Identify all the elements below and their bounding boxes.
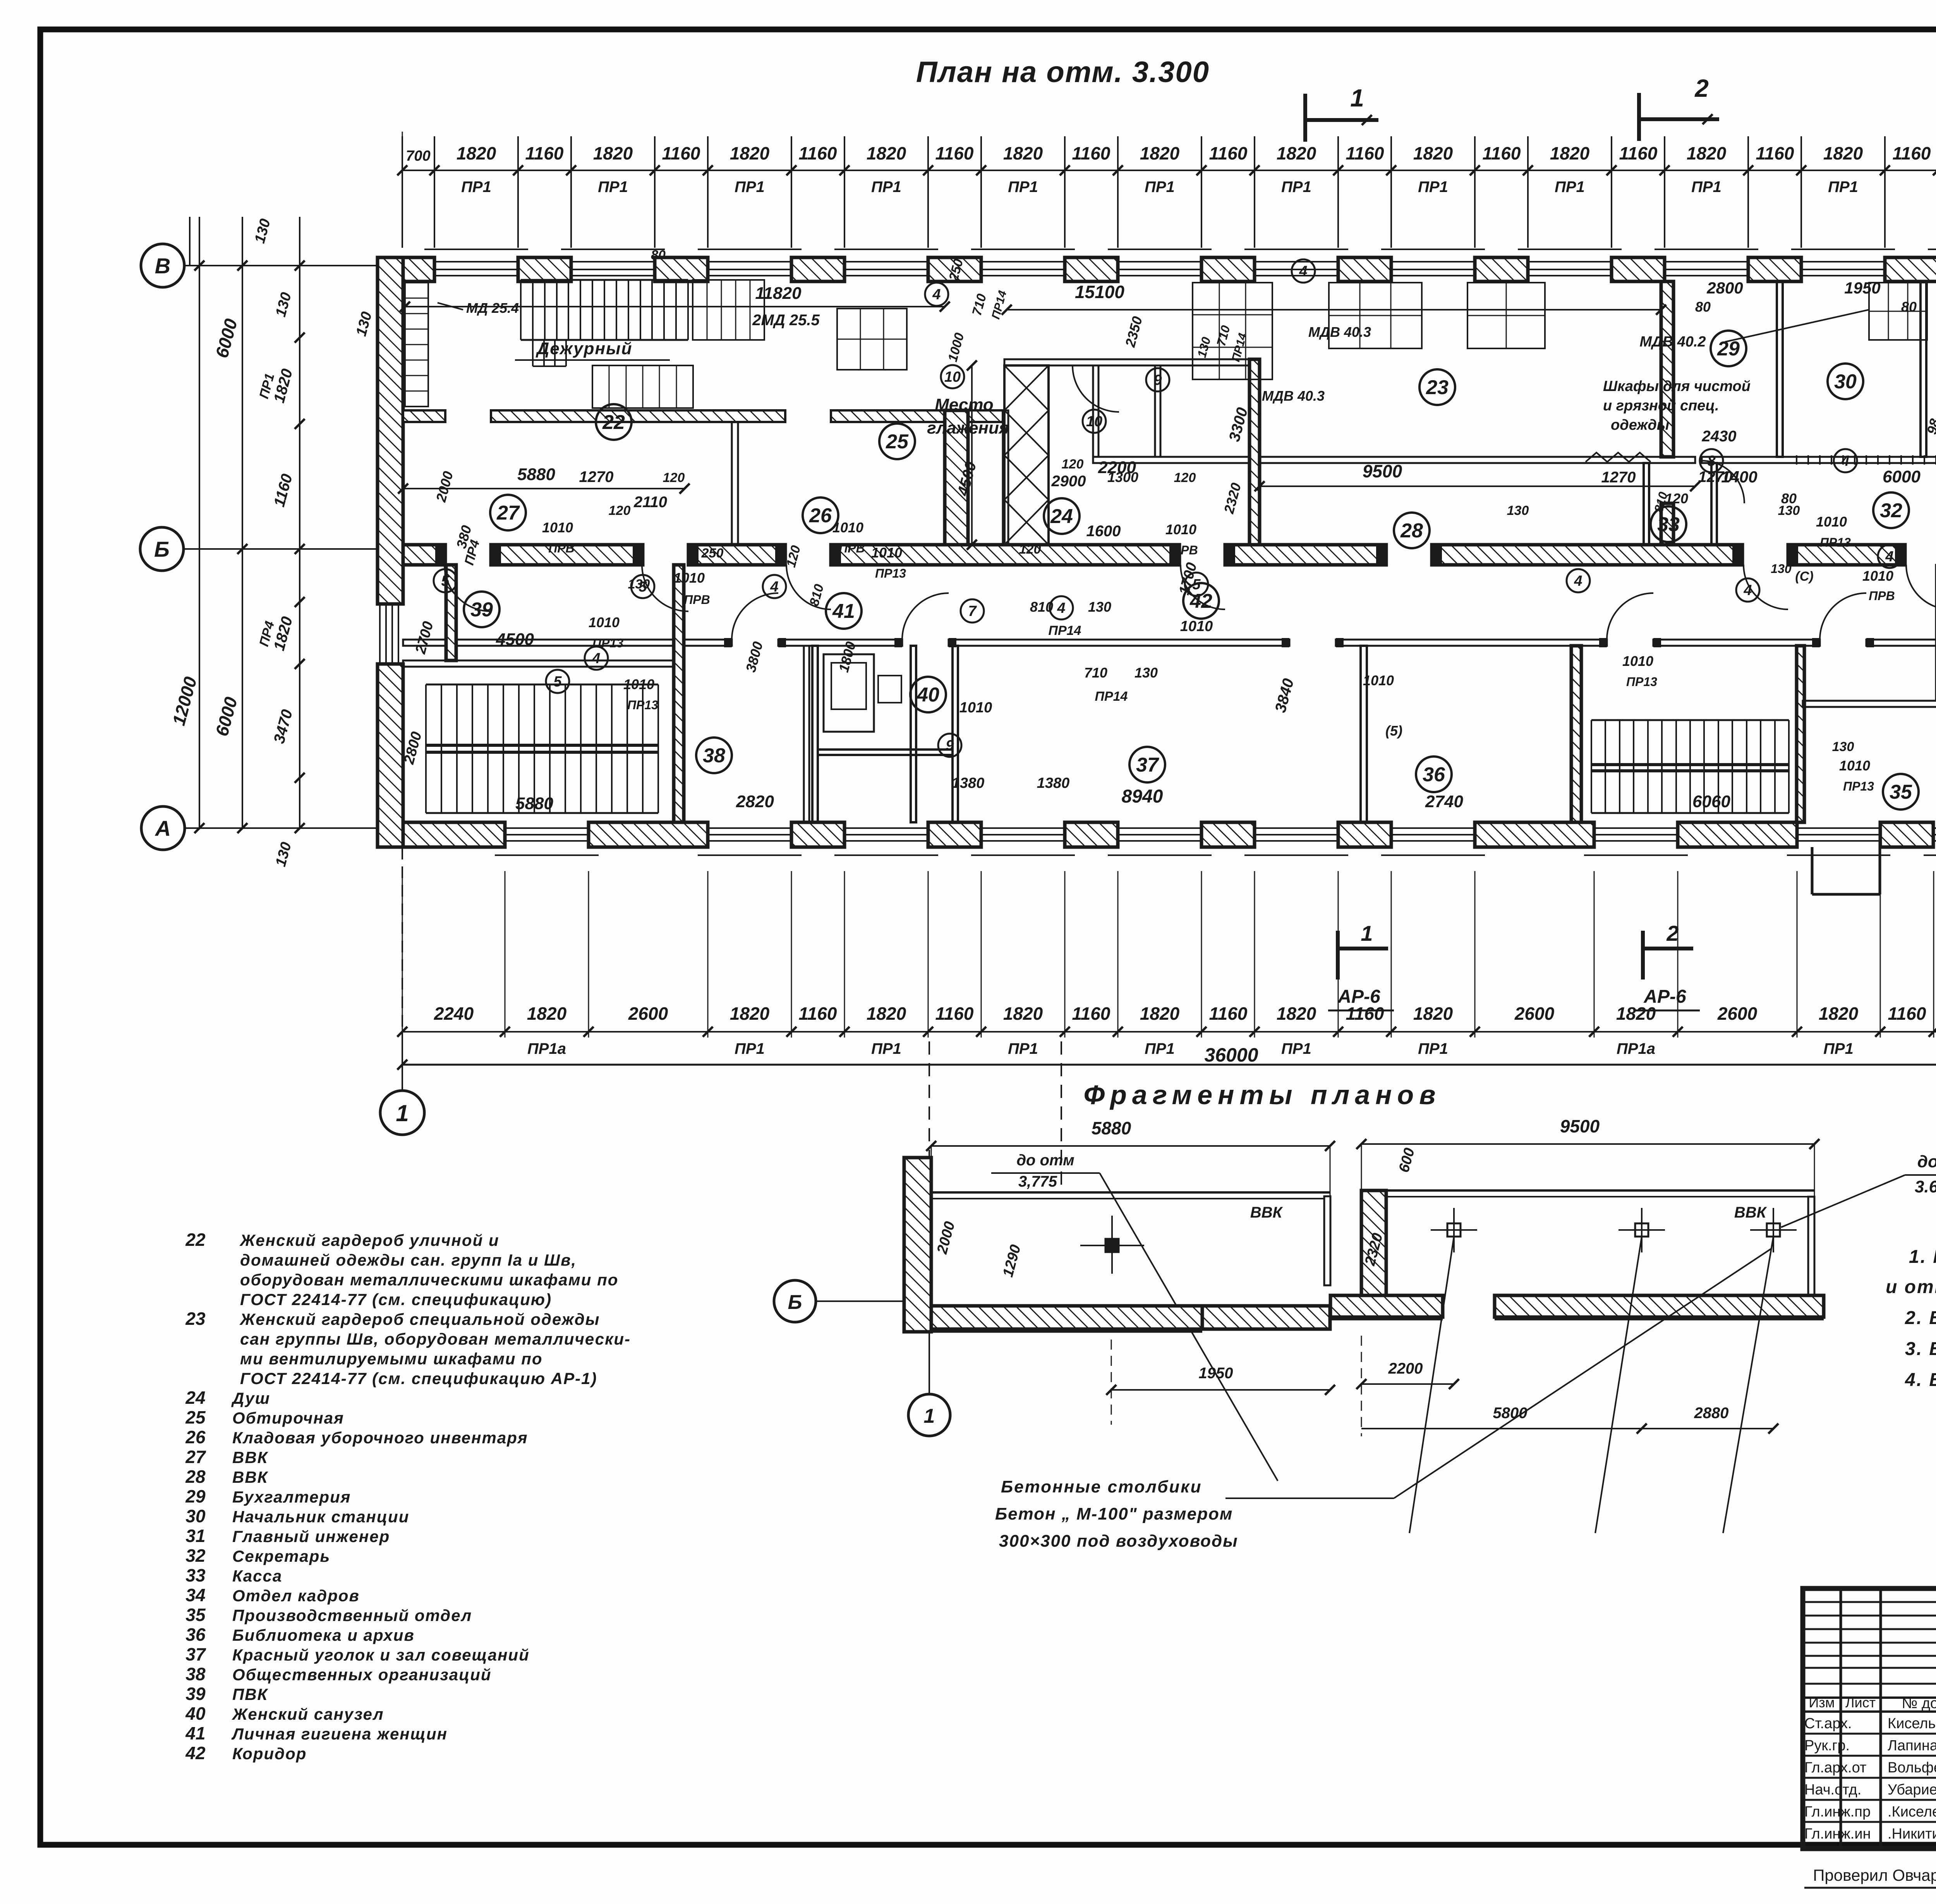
svg-text:1160: 1160 bbox=[662, 143, 700, 163]
svg-text:2800: 2800 bbox=[1706, 279, 1743, 297]
svg-text:4: 4 bbox=[1743, 582, 1752, 599]
room 39 lower wall bbox=[403, 660, 674, 667]
svg-text:Б: Б bbox=[154, 537, 170, 561]
svg-text:ВВК: ВВК bbox=[1250, 1204, 1283, 1221]
left upper room walls (22 area) bbox=[1003, 410, 1008, 545]
svg-text:ПР1: ПР1 bbox=[1281, 1040, 1311, 1057]
svg-text:1160: 1160 bbox=[935, 143, 974, 163]
svg-text:5: 5 bbox=[553, 674, 562, 690]
svg-text:28: 28 bbox=[185, 1467, 206, 1487]
svg-text:Общественных организаций: Общественных организаций bbox=[232, 1666, 492, 1684]
svg-text:1010: 1010 bbox=[1165, 521, 1196, 537]
room 29 bbox=[1711, 331, 1746, 366]
svg-text:1010: 1010 bbox=[1622, 653, 1653, 669]
axis А circle bbox=[141, 806, 185, 850]
svg-text:2. Ведомость перемычек на: 2. Ведомость перемычек на листе АР-2. bbox=[1905, 1308, 1936, 1328]
bottom windows bbox=[505, 827, 589, 829]
svg-text:1: 1 bbox=[1350, 84, 1364, 112]
grid blocks room 22 bbox=[693, 280, 764, 340]
wall 36 right bbox=[1571, 646, 1581, 822]
svg-text:9: 9 bbox=[1153, 372, 1162, 388]
svg-text:ПР1: ПР1 bbox=[1828, 178, 1858, 196]
svg-text:23: 23 bbox=[185, 1309, 206, 1329]
svg-text:ПРВ: ПРВ bbox=[548, 541, 574, 555]
svg-text:Фрагменты планов: Фрагменты планов bbox=[1084, 1080, 1441, 1110]
svg-text:9500: 9500 bbox=[1363, 461, 1402, 481]
svg-text:15100: 15100 bbox=[1075, 282, 1124, 302]
svg-text:130: 130 bbox=[1778, 503, 1800, 518]
svg-text:Женский гардероб специальной о: Женский гардероб специальной одежды bbox=[239, 1310, 600, 1328]
svg-text:4: 4 bbox=[932, 286, 941, 303]
wardrobe grid room 22 bbox=[592, 365, 693, 408]
svg-text:5880: 5880 bbox=[517, 465, 555, 484]
svg-text:Отдел кадров: Отдел кадров bbox=[232, 1587, 360, 1605]
wall 37 right / 36 left bbox=[1361, 646, 1367, 822]
left extension lines bbox=[189, 217, 191, 266]
svg-text:1950: 1950 bbox=[1199, 1365, 1233, 1382]
svg-text:36: 36 bbox=[1423, 763, 1445, 786]
room 27 bbox=[490, 495, 526, 530]
svg-text:ПР13: ПР13 bbox=[1843, 779, 1874, 793]
svg-text:8940: 8940 bbox=[1122, 786, 1163, 807]
svg-text:3,775: 3,775 bbox=[1018, 1173, 1057, 1190]
svg-text:1300: 1300 bbox=[1107, 469, 1138, 485]
svg-text:4: 4 bbox=[592, 650, 600, 667]
top dimension chain bbox=[402, 170, 1936, 171]
svg-text:35: 35 bbox=[185, 1605, 206, 1625]
svg-text:1010: 1010 bbox=[832, 520, 863, 535]
svg-text:Производственный отдел: Производственный отдел bbox=[232, 1606, 472, 1624]
svg-text:22: 22 bbox=[602, 411, 625, 434]
svg-text:27: 27 bbox=[496, 502, 520, 524]
partition in room 39 bbox=[446, 565, 456, 660]
svg-text:4: 4 bbox=[770, 579, 778, 595]
room 24 bbox=[1044, 498, 1080, 534]
svg-text:1160: 1160 bbox=[1346, 143, 1384, 163]
svg-text:38: 38 bbox=[703, 744, 725, 767]
partition above room 24 block bbox=[1004, 359, 1260, 365]
svg-text:1380: 1380 bbox=[1037, 775, 1070, 791]
svg-text:ПР1а: ПР1а bbox=[527, 1040, 566, 1057]
svg-text:1160: 1160 bbox=[799, 143, 837, 163]
svg-text:Гл.инж.пр: Гл.инж.пр bbox=[1804, 1804, 1871, 1820]
svg-text:ПР13: ПР13 bbox=[592, 636, 623, 650]
svg-text:ПР1а: ПР1а bbox=[1617, 1040, 1655, 1057]
svg-text:36000: 36000 bbox=[1204, 1044, 1258, 1066]
svg-text:Секретарь: Секретарь bbox=[232, 1547, 330, 1565]
svg-text:8: 8 bbox=[1707, 453, 1716, 469]
wall 38 right bbox=[804, 646, 809, 822]
svg-text:1010: 1010 bbox=[1180, 618, 1213, 635]
svg-text:Касса: Касса bbox=[232, 1567, 282, 1585]
svg-text:ПР1: ПР1 bbox=[598, 178, 628, 196]
room 28 bbox=[1394, 513, 1430, 548]
svg-text:до отм.: до отм. bbox=[1917, 1152, 1936, 1171]
svg-text:2: 2 bbox=[1666, 921, 1679, 945]
svg-text:1820: 1820 bbox=[593, 143, 633, 163]
svg-text:6060: 6060 bbox=[1692, 792, 1730, 811]
svg-text:2МД 25.5: 2МД 25.5 bbox=[752, 312, 820, 329]
svg-text:1160: 1160 bbox=[1483, 143, 1521, 163]
svg-text:9500: 9500 bbox=[1560, 1116, 1600, 1136]
svg-text:1: 1 bbox=[1361, 921, 1373, 945]
svg-text:130: 130 bbox=[1771, 562, 1792, 576]
svg-text:10: 10 bbox=[1086, 413, 1102, 430]
svg-text:и отверстий в них см. на ли: и отверстий в них см. на листе АР-10. bbox=[1886, 1277, 1936, 1297]
wc fixture bbox=[824, 654, 874, 732]
axis Б circle fragment bbox=[774, 1280, 816, 1322]
section flag 1 top bbox=[1303, 94, 1307, 142]
svg-text:1010: 1010 bbox=[674, 570, 705, 586]
svg-text:4. Ведомость проемов дверей: 4. Ведомость проемов дверей см. на листе… bbox=[1905, 1370, 1936, 1390]
svg-text:Гл.инж.ин: Гл.инж.ин bbox=[1804, 1826, 1871, 1842]
wall between 23 and 29 bbox=[1661, 281, 1673, 457]
svg-text:(5): (5) bbox=[1385, 723, 1402, 739]
svg-text:АР-6: АР-6 bbox=[1643, 986, 1686, 1007]
svg-text:ПР1: ПР1 bbox=[735, 1040, 765, 1057]
room 32 bbox=[1873, 492, 1909, 528]
svg-text:41: 41 bbox=[832, 600, 855, 623]
svg-text:МДВ 40.3: МДВ 40.3 bbox=[1308, 324, 1371, 340]
svg-text:ПР14: ПР14 bbox=[1049, 623, 1081, 638]
svg-text:Изм: Изм bbox=[1809, 1695, 1835, 1710]
partition right of shaft bbox=[1093, 365, 1098, 457]
svg-text:Убариев: Убариев bbox=[1888, 1782, 1936, 1798]
svg-text:ПР14: ПР14 bbox=[1095, 689, 1128, 704]
svg-text:Бетон „ М-100" размером: Бетон „ М-100" размером bbox=[995, 1504, 1233, 1523]
svg-text:ПР1: ПР1 bbox=[1418, 178, 1448, 196]
svg-text:ПР1: ПР1 bbox=[1145, 178, 1175, 196]
svg-text:2: 2 bbox=[1694, 74, 1709, 102]
svg-text:26: 26 bbox=[185, 1427, 206, 1447]
room 41 bbox=[826, 593, 862, 629]
svg-text:37: 37 bbox=[1136, 754, 1159, 776]
svg-text:4: 4 bbox=[1885, 549, 1893, 565]
svg-text:ПР1: ПР1 bbox=[871, 1040, 901, 1057]
svg-text:7: 7 bbox=[968, 603, 977, 619]
svg-text:Ст.арх.: Ст.арх. bbox=[1804, 1715, 1852, 1732]
svg-text:3. Ведомость гардеробного о: 3. Ведомость гардеробного оборудования с… bbox=[1905, 1339, 1936, 1359]
svg-text:1160: 1160 bbox=[1893, 143, 1931, 163]
svg-text:1010: 1010 bbox=[959, 700, 992, 716]
svg-text:1820: 1820 bbox=[1819, 1003, 1859, 1024]
staircase upper-left (2МД25.5) bbox=[521, 279, 688, 281]
svg-text:ми вентилируемыми шкафами по: ми вентилируемыми шкафами по bbox=[240, 1350, 543, 1368]
room 33 walls bbox=[1644, 463, 1649, 545]
svg-text:30: 30 bbox=[185, 1506, 206, 1526]
svg-text:1950: 1950 bbox=[1844, 279, 1880, 297]
svg-text:Кисельман: Кисельман bbox=[1888, 1715, 1936, 1732]
svg-text:Главный инженер: Главный инженер bbox=[232, 1527, 390, 1545]
svg-text:ПР1: ПР1 bbox=[871, 178, 901, 196]
svg-text:40: 40 bbox=[917, 684, 939, 706]
svg-text:1600: 1600 bbox=[1086, 523, 1121, 540]
svg-text:ПР1: ПР1 bbox=[461, 178, 491, 196]
svg-text:1820: 1820 bbox=[1140, 1003, 1180, 1024]
svg-text:22: 22 bbox=[185, 1230, 206, 1250]
room 35 bbox=[1883, 774, 1919, 810]
svg-text:2240: 2240 bbox=[434, 1003, 474, 1024]
svg-text:33: 33 bbox=[185, 1565, 206, 1585]
svg-text:25: 25 bbox=[886, 431, 909, 453]
svg-text:120: 120 bbox=[609, 503, 631, 518]
partition above rooms 27-26 bbox=[403, 410, 445, 422]
glass block partition ticks bbox=[1797, 455, 1936, 465]
svg-text:ПР1: ПР1 bbox=[1823, 1040, 1854, 1057]
svg-text:Женский гардероб уличной и: Женский гардероб уличной и bbox=[239, 1231, 499, 1249]
svg-text:.Киселева: .Киселева bbox=[1888, 1804, 1936, 1820]
svg-text:Гл.арх.от: Гл.арх.от bbox=[1804, 1760, 1866, 1776]
svg-text:1. Маркировочная схема сборны: 1. Маркировочная схема сборных и стеклоб… bbox=[1909, 1247, 1936, 1267]
svg-text:глажения: глажения bbox=[927, 419, 1009, 437]
svg-text:27: 27 bbox=[185, 1447, 206, 1467]
svg-text:5: 5 bbox=[638, 579, 647, 595]
svg-text:1010: 1010 bbox=[1862, 568, 1893, 584]
svg-text:Коридор: Коридор bbox=[232, 1744, 307, 1763]
svg-text:оборудован металлическими шкаф: оборудован металлическими шкафами по bbox=[240, 1271, 618, 1289]
svg-text:2740: 2740 bbox=[1425, 792, 1463, 811]
svg-text:39: 39 bbox=[185, 1684, 206, 1704]
svg-text:Душ: Душ bbox=[231, 1389, 270, 1407]
svg-text:1270: 1270 bbox=[579, 468, 614, 485]
svg-text:2430: 2430 bbox=[1702, 428, 1737, 445]
svg-text:ПРВ: ПРВ bbox=[1869, 589, 1895, 603]
room 37 bbox=[1129, 747, 1165, 782]
svg-text:1820: 1820 bbox=[1550, 143, 1590, 163]
svg-text:4: 4 bbox=[1574, 573, 1582, 589]
axis В circle bbox=[141, 244, 184, 287]
stair left enclosure wall bbox=[674, 565, 684, 822]
top exterior wall with window piers bbox=[378, 257, 434, 281]
svg-text:ПР13: ПР13 bbox=[875, 566, 906, 580]
axis 1 circle fragment bbox=[908, 1394, 950, 1436]
sink bbox=[878, 676, 901, 703]
svg-text:38: 38 bbox=[185, 1664, 206, 1684]
svg-text:1820: 1820 bbox=[1277, 143, 1316, 163]
svg-text:250: 250 bbox=[701, 546, 724, 561]
svg-text:1010: 1010 bbox=[1363, 672, 1394, 688]
svg-text:ПР1: ПР1 bbox=[1691, 178, 1721, 196]
svg-text:11820: 11820 bbox=[755, 284, 802, 303]
wall 30|31 bbox=[1921, 281, 1926, 457]
right stair right wall bbox=[1797, 646, 1804, 822]
svg-text:31: 31 bbox=[185, 1526, 205, 1546]
svg-text:41: 41 bbox=[185, 1723, 205, 1743]
wall 29|30 bbox=[1777, 281, 1783, 457]
room 42 bbox=[1183, 583, 1219, 619]
svg-text:1820: 1820 bbox=[527, 1003, 567, 1024]
svg-text:120: 120 bbox=[1062, 457, 1084, 472]
overall 36000 dimension bbox=[402, 1064, 1936, 1066]
svg-text:Бухгалтерия: Бухгалтерия bbox=[232, 1488, 351, 1506]
svg-text:.Никитин: .Никитин bbox=[1888, 1826, 1936, 1842]
svg-text:МД 25.4: МД 25.4 bbox=[466, 300, 519, 316]
axis circle 1 bottom bbox=[380, 1091, 424, 1135]
svg-text:1820: 1820 bbox=[1003, 143, 1043, 163]
svg-text:1160: 1160 bbox=[799, 1003, 837, 1024]
svg-text:9: 9 bbox=[946, 738, 954, 754]
svg-text:и грязной спец.: и грязной спец. bbox=[1603, 398, 1719, 414]
svg-text:сан группы Шв, оборудован мета: сан группы Шв, оборудован металлически- bbox=[240, 1330, 631, 1348]
top windows bbox=[424, 249, 528, 250]
svg-text:ПР13: ПР13 bbox=[1626, 675, 1657, 689]
svg-text:6000: 6000 bbox=[1883, 467, 1921, 486]
svg-text:1820: 1820 bbox=[1277, 1003, 1316, 1024]
svg-text:5880: 5880 bbox=[515, 794, 553, 813]
small rooms 41/40 partitions bbox=[812, 646, 818, 822]
svg-text:Б: Б bbox=[788, 1291, 802, 1314]
svg-text:3.655: 3.655 bbox=[1915, 1177, 1936, 1196]
svg-text:1820: 1820 bbox=[457, 143, 496, 163]
svg-text:ПР1: ПР1 bbox=[1281, 178, 1311, 196]
svg-text:34: 34 bbox=[185, 1585, 205, 1605]
room 26 bbox=[803, 497, 838, 533]
svg-text:1820: 1820 bbox=[1823, 143, 1863, 163]
svg-text:Красный уголок и зал совещаний: Красный уголок и зал совещаний bbox=[232, 1646, 530, 1664]
svg-text:1820: 1820 bbox=[730, 143, 770, 163]
svg-text:1010: 1010 bbox=[589, 614, 620, 630]
svg-text:29: 29 bbox=[185, 1486, 206, 1506]
svg-text:130: 130 bbox=[1507, 503, 1529, 518]
svg-text:1: 1 bbox=[396, 1100, 408, 1126]
svg-text:4: 4 bbox=[1841, 453, 1849, 469]
svg-text:ПРВ: ПРВ bbox=[1172, 543, 1198, 557]
svg-text:1160: 1160 bbox=[1072, 1003, 1110, 1024]
svg-text:5: 5 bbox=[441, 573, 450, 589]
svg-text:300×300 под воздуховоды: 300×300 под воздуховоды bbox=[999, 1532, 1238, 1551]
svg-text:Женский санузел: Женский санузел bbox=[232, 1705, 384, 1723]
svg-text:домашней одежды сан. групп Iа: домашней одежды сан. групп Iа и Шв, bbox=[240, 1251, 577, 1269]
svg-text:Место: Место bbox=[935, 395, 994, 414]
svg-text:2200: 2200 bbox=[1388, 1360, 1423, 1377]
svg-text:1820: 1820 bbox=[730, 1003, 770, 1024]
svg-text:32: 32 bbox=[185, 1545, 206, 1566]
room 39 bbox=[464, 592, 499, 627]
svg-text:(С): (С) bbox=[1795, 569, 1813, 584]
svg-text:1010: 1010 bbox=[542, 520, 573, 535]
svg-text:1820: 1820 bbox=[1413, 143, 1453, 163]
svg-text:ПР13: ПР13 bbox=[1820, 535, 1851, 549]
svg-text:1820: 1820 bbox=[1003, 1003, 1043, 1024]
svg-text:37: 37 bbox=[185, 1644, 206, 1664]
room 22 bbox=[596, 404, 632, 440]
svg-text:130: 130 bbox=[1088, 599, 1111, 615]
fragment 2 (right) bbox=[1361, 1143, 1814, 1145]
svg-text:33: 33 bbox=[1657, 513, 1680, 536]
svg-text:42: 42 bbox=[185, 1743, 206, 1763]
fragment 1 (left) bbox=[931, 1145, 1330, 1147]
svg-text:ВВК: ВВК bbox=[232, 1468, 269, 1486]
svg-text:5880: 5880 bbox=[1092, 1118, 1131, 1138]
bottom exterior wall with window piers bbox=[378, 822, 505, 847]
svg-text:ГОСТ 22414-77 (см. спецификаци: ГОСТ 22414-77 (см. спецификацию) bbox=[240, 1290, 552, 1309]
svg-text:План на отм. 3.300: План на отм. 3.300 bbox=[916, 56, 1210, 89]
svg-text:1160: 1160 bbox=[1209, 143, 1248, 163]
svg-text:4: 4 bbox=[1299, 263, 1307, 280]
door swings bbox=[445, 565, 491, 611]
wall between 27 and 26 bbox=[732, 422, 738, 545]
svg-text:4500: 4500 bbox=[496, 630, 534, 649]
svg-text:28: 28 bbox=[1400, 520, 1423, 542]
svg-text:Личная гигиена женщин: Личная гигиена женщин bbox=[231, 1725, 448, 1743]
svg-text:130: 130 bbox=[1134, 665, 1158, 681]
svg-text:2110: 2110 bbox=[633, 494, 667, 511]
svg-text:1010: 1010 bbox=[1839, 758, 1870, 774]
staircase right bbox=[1591, 720, 1592, 813]
svg-text:ПР1: ПР1 bbox=[1008, 178, 1038, 196]
section flag 2 top bbox=[1637, 93, 1641, 141]
svg-text:1010: 1010 bbox=[623, 676, 654, 692]
bottom dimension chain bbox=[402, 1031, 1936, 1033]
svg-text:1: 1 bbox=[924, 1405, 935, 1427]
svg-text:80: 80 bbox=[1695, 299, 1711, 315]
svg-text:Кладовая уборочного инвентаря: Кладовая уборочного инвентаря bbox=[232, 1429, 528, 1447]
svg-text:ПР1: ПР1 bbox=[735, 178, 765, 196]
title block bbox=[1803, 1588, 1936, 1849]
svg-text:1820: 1820 bbox=[867, 1003, 906, 1024]
svg-text:700: 700 bbox=[406, 148, 430, 164]
svg-text:2600: 2600 bbox=[1514, 1003, 1555, 1024]
partition above rooms 28/32 row bbox=[1093, 457, 1695, 463]
ventilation shaft with cross bracing bbox=[1004, 365, 1049, 545]
svg-text:5: 5 bbox=[1192, 576, 1201, 593]
axis Б circle bbox=[140, 527, 184, 571]
svg-text:1160: 1160 bbox=[1756, 143, 1794, 163]
svg-text:Лапина: Лапина bbox=[1888, 1738, 1936, 1754]
wardrobe cabinets room 23 bbox=[1193, 283, 1272, 379]
svg-text:710: 710 bbox=[1084, 665, 1107, 681]
svg-text:ПВК: ПВК bbox=[232, 1685, 269, 1703]
svg-text:32: 32 bbox=[1880, 499, 1902, 522]
room 25 bbox=[879, 424, 915, 459]
svg-text:Проверил Овчаренко: Проверил Овчаренко bbox=[1813, 1866, 1936, 1884]
svg-text:Шкафы для чистой: Шкафы для чистой bbox=[1603, 378, 1751, 395]
room 33 bbox=[1651, 506, 1686, 542]
svg-text:Обтирочная: Обтирочная bbox=[232, 1409, 344, 1427]
svg-text:30: 30 bbox=[1834, 371, 1857, 393]
left exterior wall bbox=[378, 257, 403, 604]
wardrobe zigzag 2430 bbox=[1586, 453, 1651, 462]
svg-text:36: 36 bbox=[185, 1624, 206, 1645]
svg-text:ПР1: ПР1 bbox=[1555, 178, 1585, 196]
left vertical dimension chain bbox=[299, 217, 300, 828]
svg-text:ПР1: ПР1 bbox=[1008, 1040, 1038, 1057]
svg-text:ПРВ: ПРВ bbox=[684, 593, 710, 607]
svg-text:Дежурный: Дежурный bbox=[535, 339, 633, 358]
room 36 bbox=[1416, 756, 1452, 792]
room 38 bbox=[696, 738, 732, 773]
svg-text:1160: 1160 bbox=[1888, 1003, 1926, 1024]
small room partition x2983 bbox=[1155, 365, 1160, 457]
entrance porch bottom bbox=[1811, 847, 1814, 894]
svg-text:МДВ 40.3: МДВ 40.3 bbox=[1262, 388, 1325, 404]
svg-text:ПР1: ПР1 bbox=[1418, 1040, 1448, 1057]
svg-text:25: 25 bbox=[185, 1407, 206, 1427]
room 40 bbox=[910, 677, 946, 712]
svg-text:Начальник станции: Начальник станции bbox=[232, 1508, 409, 1526]
section flag 1 bottom bbox=[1336, 931, 1340, 979]
staircase lower-left bbox=[408, 674, 409, 822]
svg-text:2880: 2880 bbox=[1694, 1405, 1729, 1422]
svg-text:26: 26 bbox=[809, 504, 832, 527]
svg-text:2600: 2600 bbox=[628, 1003, 668, 1024]
svg-text:1160: 1160 bbox=[1072, 143, 1110, 163]
corridor lower partition wall bbox=[403, 640, 732, 646]
svg-text:ПР1: ПР1 bbox=[1145, 1040, 1175, 1057]
svg-text:1380: 1380 bbox=[952, 775, 985, 791]
room 30 bbox=[1828, 364, 1863, 399]
svg-text:АР-6: АР-6 bbox=[1337, 986, 1380, 1007]
